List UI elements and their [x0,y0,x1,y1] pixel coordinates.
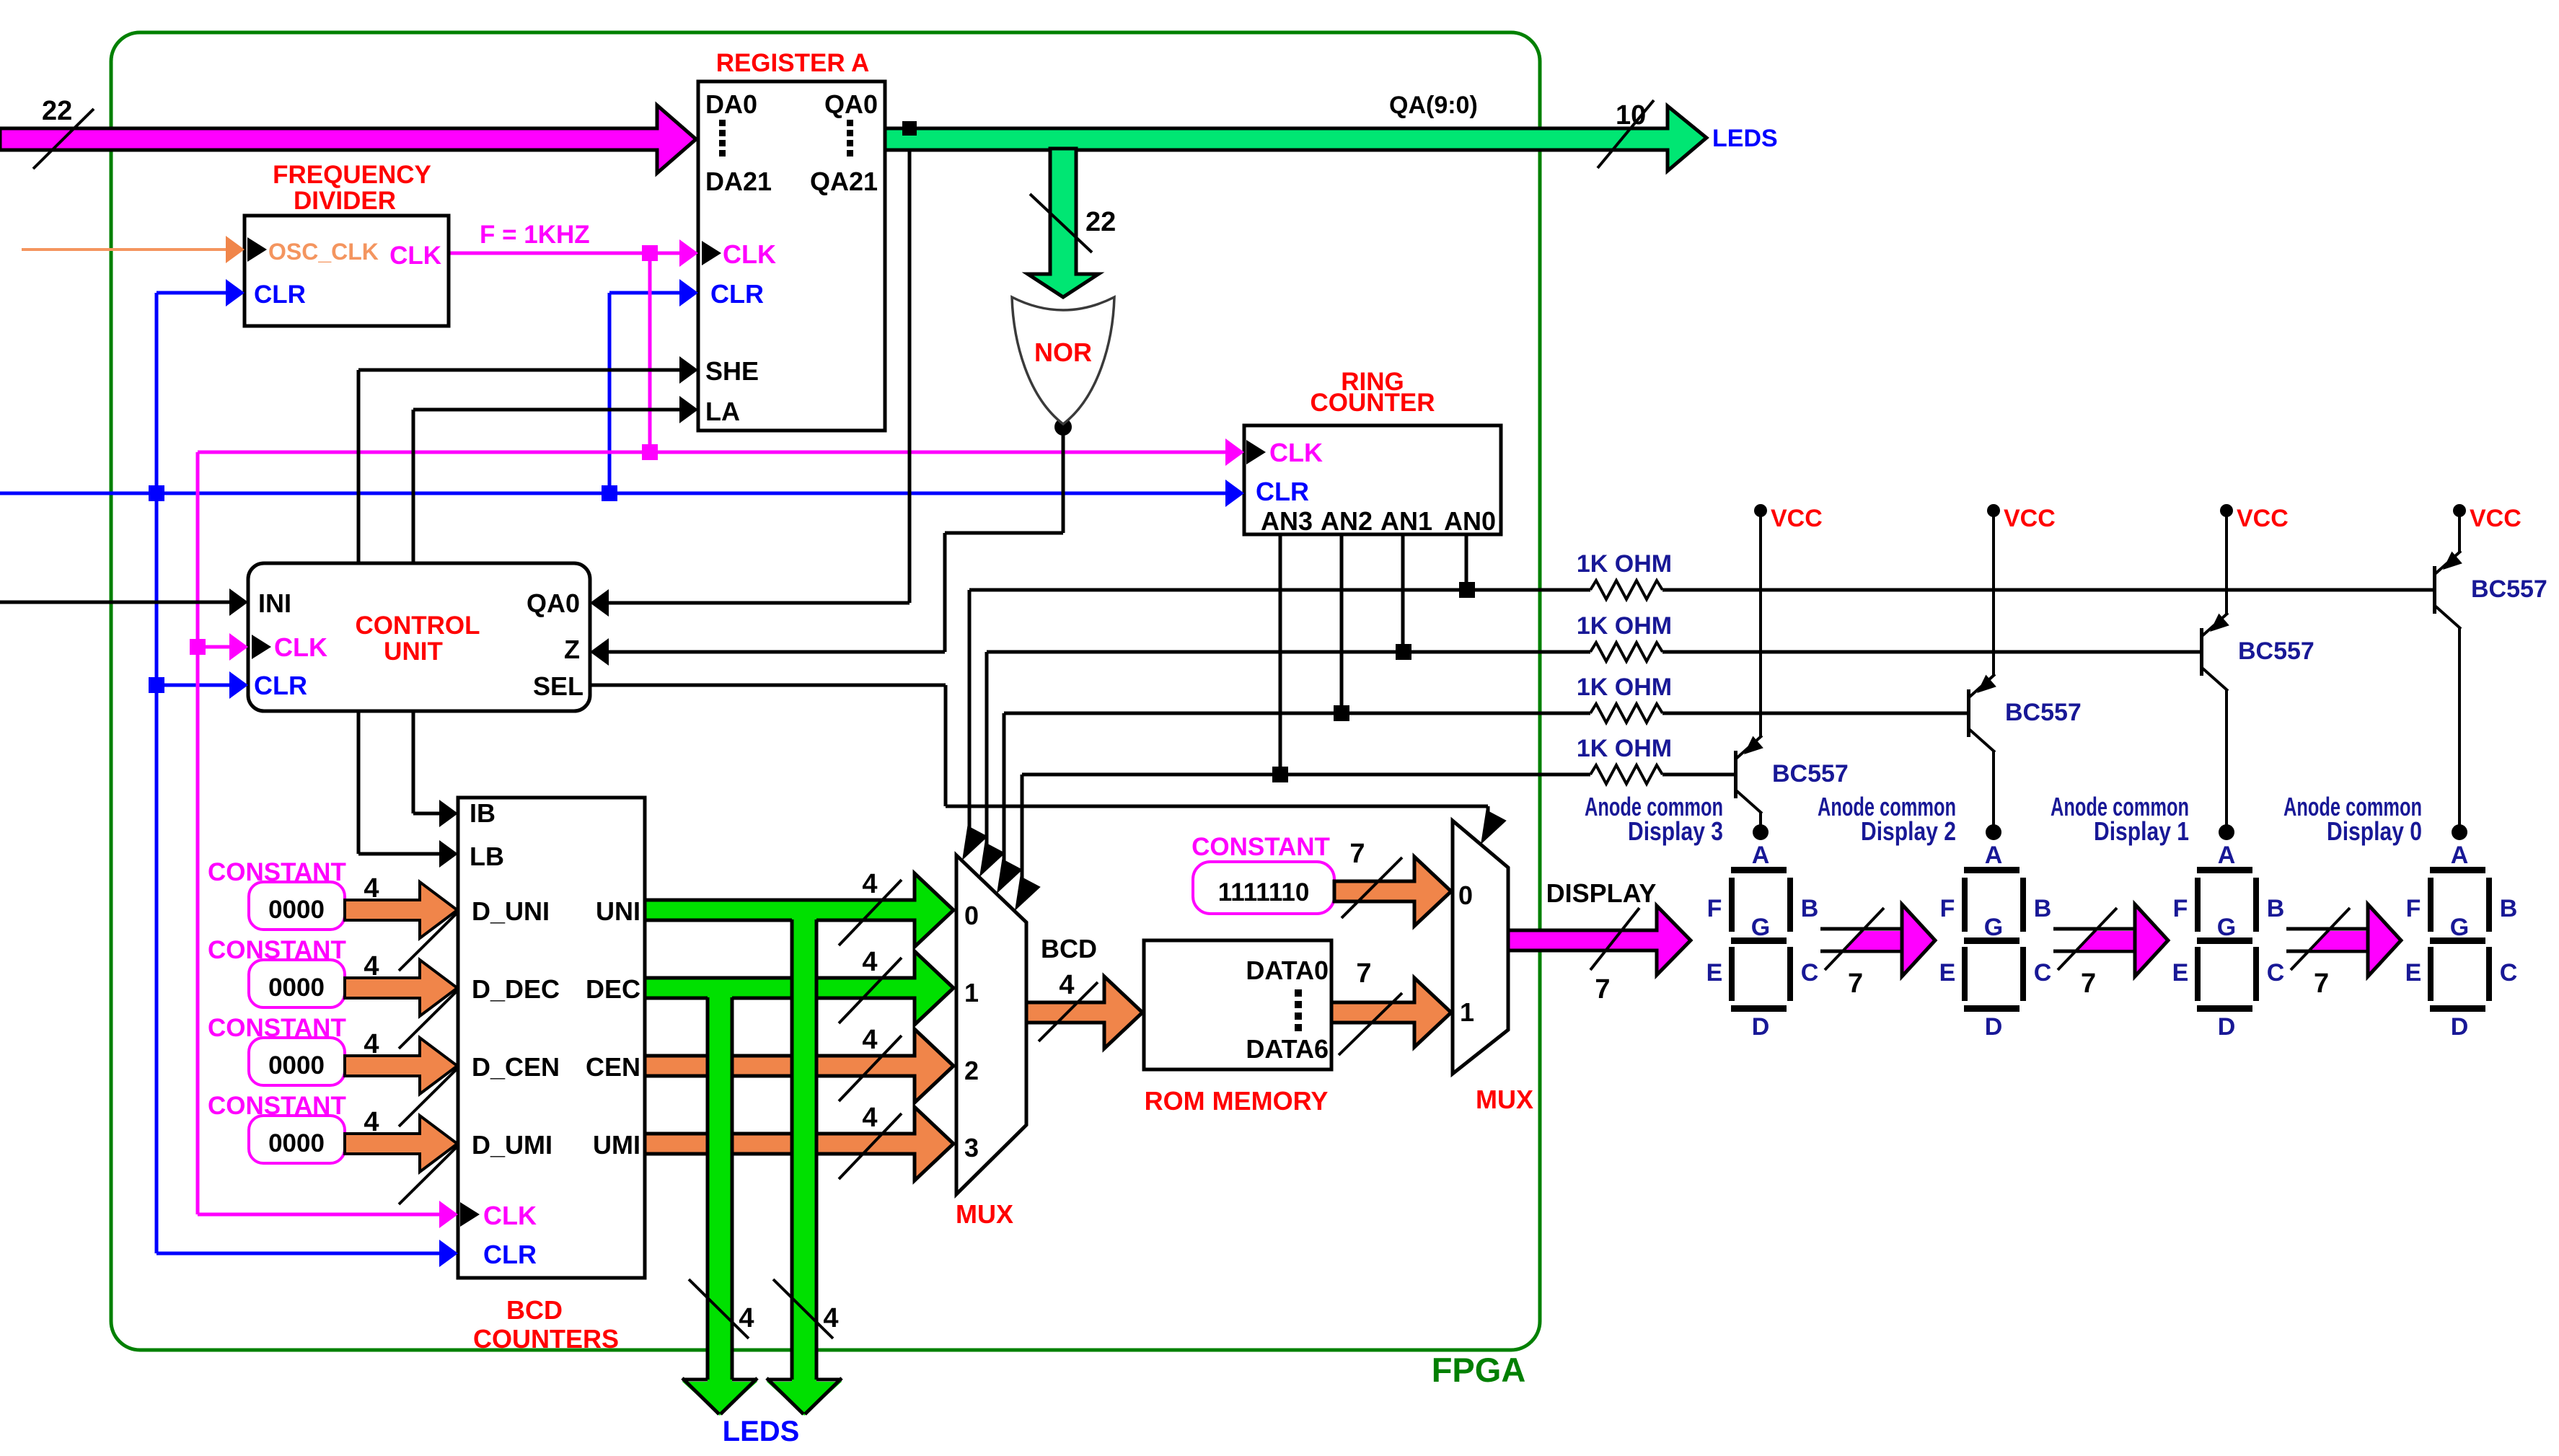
svg-text:DEC: DEC [586,974,640,1004]
svg-text:BC557: BC557 [1772,760,1849,787]
svg-text:10: 10 [1616,100,1646,131]
svg-text:4: 4 [739,1303,754,1333]
svg-text:AN0: AN0 [1444,506,1496,536]
svg-text:VCC: VCC [1771,505,1823,532]
svg-text:ROM MEMORY: ROM MEMORY [1145,1086,1329,1116]
svg-text:CLR: CLR [254,281,306,309]
svg-text:AN3: AN3 [1261,506,1313,536]
svg-text:AN1: AN1 [1380,506,1432,536]
svg-text:A: A [1752,842,1770,869]
svg-text:CLR: CLR [254,671,307,700]
svg-text:NOR: NOR [1034,337,1092,367]
svg-text:0: 0 [964,901,979,930]
svg-text:F: F [1707,895,1722,922]
svg-text:B: B [2267,895,2285,922]
svg-text:UNIT: UNIT [384,637,443,666]
svg-text:4: 4 [364,1107,379,1137]
svg-text:4: 4 [823,1303,838,1333]
svg-text:D_CEN: D_CEN [472,1052,560,1082]
svg-text:F: F [1940,895,1955,922]
svg-text:D_UMI: D_UMI [472,1130,552,1160]
svg-text:DISPLAY: DISPLAY [1546,878,1657,908]
svg-text:E: E [2405,959,2422,987]
svg-text:1: 1 [1460,997,1474,1027]
svg-text:E: E [2172,959,2189,987]
svg-text:1K OHM: 1K OHM [1577,674,1672,701]
svg-text:SEL: SEL [533,671,583,701]
svg-text:LEDS: LEDS [1712,125,1778,152]
svg-text:QA0: QA0 [527,588,580,618]
svg-text:DA21: DA21 [705,167,772,196]
svg-text:4: 4 [862,1025,877,1055]
svg-text:D: D [1752,1013,1770,1041]
svg-text:0000: 0000 [268,896,325,924]
svg-text:22: 22 [1085,207,1116,237]
svg-text:0000: 0000 [268,1129,325,1157]
svg-text:AN2: AN2 [1321,506,1373,536]
svg-text:CLK: CLK [723,239,776,269]
svg-text:DA0: DA0 [705,89,757,119]
svg-text:MUX: MUX [956,1199,1013,1229]
svg-text:LB: LB [470,842,504,871]
svg-text:D: D [1985,1013,2003,1041]
svg-text:B: B [2500,895,2518,922]
svg-text:E: E [1939,959,1956,987]
svg-text:C: C [2034,959,2052,987]
svg-text:A: A [2218,842,2236,869]
svg-text:B: B [1801,895,1819,922]
svg-text:C: C [2500,959,2518,987]
svg-text:7: 7 [1349,839,1365,869]
svg-text:CLR: CLR [1256,477,1309,506]
svg-text:E: E [1706,959,1723,987]
svg-text:LEDS: LEDS [723,1416,800,1447]
svg-text:3: 3 [964,1133,979,1162]
svg-text:CEN: CEN [586,1052,640,1082]
svg-text:A: A [1985,842,2003,869]
svg-text:4: 4 [1059,970,1074,1000]
svg-text:0: 0 [1458,881,1473,910]
svg-text:7: 7 [2081,969,2096,999]
svg-text:DATA0: DATA0 [1246,956,1329,985]
svg-text:COUNTER: COUNTER [1310,389,1435,417]
svg-text:QA21: QA21 [810,167,878,196]
svg-text:QA0: QA0 [824,89,878,119]
svg-text:D_UNI: D_UNI [472,896,550,926]
svg-text:CLK: CLK [483,1201,537,1230]
svg-text:VCC: VCC [2004,505,2056,532]
svg-text:UNI: UNI [596,896,640,926]
svg-text:Display 0: Display 0 [2327,816,2422,846]
svg-text:F: F [2173,895,2188,922]
svg-text:7: 7 [2314,969,2329,999]
svg-text:COUNTERS: COUNTERS [473,1324,619,1354]
svg-text:7: 7 [1356,958,1371,989]
svg-text:LA: LA [705,397,740,426]
svg-text:CLR: CLR [710,279,764,309]
svg-text:2: 2 [964,1056,979,1085]
svg-text:G: G [1984,914,2003,941]
svg-text:Display 2: Display 2 [1861,816,1956,846]
svg-text:F: F [2406,895,2421,922]
svg-text:VCC: VCC [2470,505,2521,532]
svg-text:F = 1KHZ: F = 1KHZ [480,221,590,249]
svg-text:CLK: CLK [274,632,327,662]
svg-text:Display 1: Display 1 [2094,816,2189,846]
svg-text:IB: IB [470,798,495,828]
svg-text:7: 7 [1595,974,1610,1005]
svg-text:4: 4 [364,873,379,904]
svg-text:4: 4 [364,951,379,981]
svg-text:D_DEC: D_DEC [472,974,560,1004]
svg-text:D: D [2218,1013,2236,1041]
svg-text:BC557: BC557 [2238,637,2314,665]
svg-text:CONTROL: CONTROL [355,612,480,640]
svg-text:CLK: CLK [389,242,441,270]
svg-text:7: 7 [1848,969,1863,999]
svg-text:1K OHM: 1K OHM [1577,550,1672,578]
svg-text:4: 4 [862,947,877,977]
svg-text:Display 3: Display 3 [1628,816,1723,846]
svg-text:C: C [2267,959,2285,987]
svg-text:4: 4 [862,869,877,899]
svg-text:4: 4 [364,1029,379,1059]
svg-text:VCC: VCC [2237,505,2289,532]
svg-text:SHE: SHE [705,356,759,386]
svg-text:CONSTANT: CONSTANT [1192,833,1330,861]
svg-text:C: C [1801,959,1819,987]
svg-text:BCD: BCD [506,1295,563,1325]
svg-text:4: 4 [862,1103,877,1133]
svg-text:1: 1 [964,978,979,1007]
svg-text:CLR: CLR [483,1240,537,1269]
svg-text:FREQUENCY: FREQUENCY [273,161,431,189]
svg-text:MUX: MUX [1476,1085,1533,1114]
svg-text:CLK: CLK [1269,438,1323,467]
svg-text:0000: 0000 [268,974,325,1002]
svg-text:G: G [2217,914,2236,941]
svg-text:1111110: 1111110 [1218,878,1310,906]
svg-text:G: G [1751,914,1770,941]
svg-text:D: D [2451,1013,2469,1041]
svg-text:0000: 0000 [268,1051,325,1080]
svg-text:22: 22 [42,96,72,126]
svg-text:BCD: BCD [1041,934,1097,963]
svg-text:OSC_CLK: OSC_CLK [268,239,379,265]
svg-text:DATA6: DATA6 [1246,1034,1329,1064]
svg-text:DIVIDER: DIVIDER [294,187,396,215]
svg-text:A: A [2451,842,2469,869]
svg-text:INI: INI [258,588,291,618]
svg-text:FPGA: FPGA [1432,1351,1526,1389]
svg-text:1K OHM: 1K OHM [1577,735,1672,762]
svg-text:UMI: UMI [593,1130,640,1160]
svg-text:G: G [2450,914,2469,941]
svg-text:1K OHM: 1K OHM [1577,612,1672,640]
svg-text:BC557: BC557 [2005,699,2082,726]
svg-text:QA(9:0): QA(9:0) [1389,92,1478,119]
svg-text:B: B [2034,895,2052,922]
svg-text:REGISTER A: REGISTER A [716,49,870,77]
svg-text:BC557: BC557 [2471,575,2547,603]
svg-text:Z: Z [564,635,580,664]
